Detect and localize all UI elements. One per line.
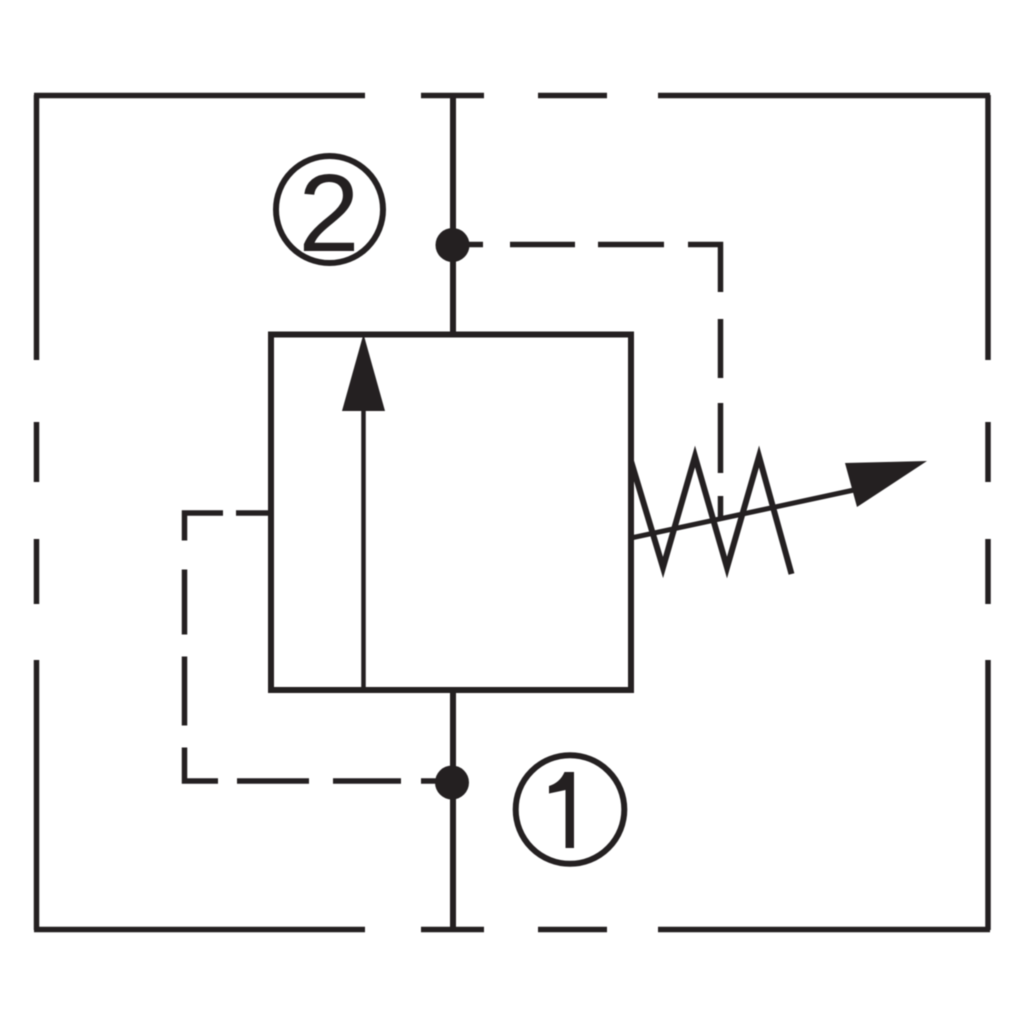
svg-text:2: 2	[298, 152, 359, 275]
